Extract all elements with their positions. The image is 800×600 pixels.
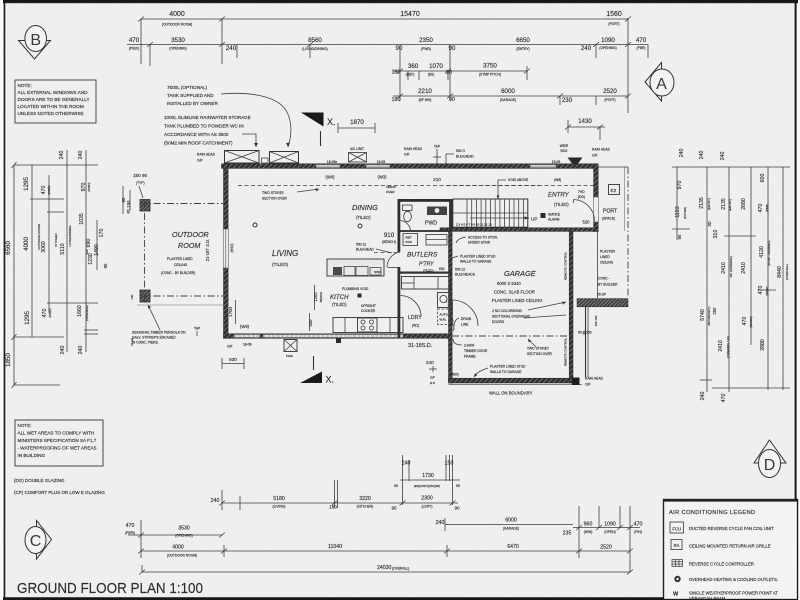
exterior wall top: [222, 164, 599, 169]
butlers bench: [402, 277, 451, 290]
smoke alarm: [541, 213, 546, 218]
butlers/ldry wall: [399, 272, 452, 274]
pergola note bottom left: [132, 305, 186, 345]
top dimension tier 1 line: [138, 11, 631, 113]
drain line dashes: [446, 300, 454, 334]
port bottom pier wall: [577, 299, 628, 307]
dining bulkhead dashes: [374, 252, 397, 254]
bottom dim overall rooms tier: [138, 544, 633, 558]
legend FCU symbol: [670, 522, 684, 533]
bottom dim garage tier: [436, 518, 573, 532]
void above dashed line: [447, 185, 595, 187]
section cut marker X top: [301, 113, 336, 147]
outdoor room boundary left: [144, 200, 146, 302]
top dimension tier 4 line: [392, 45, 631, 106]
port top edge: [598, 166, 628, 168]
ref/bs boxes below pwd: [403, 234, 447, 246]
floor waste crossed box: [284, 340, 297, 359]
right dim column line 4: [741, 167, 753, 345]
dim 930: [222, 357, 244, 369]
stacker door glazing bottom: [263, 335, 403, 338]
door gap butlers left: [397, 252, 400, 267]
left dim column line 970/1035/690/1230/1660: [68, 150, 98, 354]
garage bottom wall: [449, 378, 578, 383]
outdoor room boundary top: [140, 203, 223, 205]
power point kitchen: [358, 294, 362, 298]
two storey dashed line top: [238, 185, 540, 187]
wall pwd-stair: [450, 199, 453, 231]
entry door opening right wall: [593, 197, 598, 222]
entry door arc: [574, 200, 595, 222]
window W3 gap: [366, 165, 390, 168]
border frame bottom bar: [3, 597, 798, 600]
pwd top wall: [398, 199, 453, 202]
butlers door arc: [387, 252, 400, 267]
pwd room: [399, 201, 450, 232]
bottom dim window tier right: [563, 506, 643, 558]
garage right wall: [569, 231, 573, 383]
section cut marker X bottom: [300, 356, 334, 385]
bottom dim 24030 overall: [139, 558, 633, 575]
corner block garage SE: [572, 378, 580, 386]
outdoor room post bottom: [140, 290, 150, 302]
left dim column small cluster: [94, 186, 134, 346]
garage labels: [492, 269, 566, 324]
sliding door opening left wall: [223, 229, 228, 268]
kitchen rear bench: [333, 318, 403, 333]
legend RA symbol: [671, 540, 682, 550]
outdoor room post top: [140, 200, 150, 212]
right dim column line 2: [699, 151, 719, 401]
top dimension tier 2 line: [127, 37, 648, 66]
outdoor room boundary bottom: [140, 295, 223, 297]
border frame right line: [795, 0, 797, 600]
air conditioning legend box: [664, 500, 798, 600]
window W4 gap: [316, 165, 340, 168]
downlight dining: [358, 224, 362, 228]
ldry door arc: [401, 296, 422, 317]
ldry trough: [438, 293, 451, 308]
right dim column line 1: [672, 149, 790, 240]
port boundary dashed: [627, 167, 629, 298]
section marker C: [25, 521, 52, 560]
garage door leaf bottom left: [453, 300, 479, 326]
section marker B: [19, 26, 51, 60]
bottom mini dim cluster 240/1730/150: [394, 455, 460, 505]
a/c unit: [349, 147, 367, 162]
left dim column line 470/3060/470: [37, 175, 98, 318]
section marker D: [754, 440, 786, 478]
left dim column line 1295/4000/1295: [14, 165, 64, 337]
wall below stairs/entry: [440, 228, 598, 232]
garage left wall: [449, 231, 453, 383]
left dim column line 240/5110/1660/240: [54, 150, 67, 354]
outdoor room eave line: [137, 304, 225, 306]
exterior wall left of living: [224, 164, 229, 338]
rainwater tank 1: [225, 151, 260, 164]
stairs: [453, 199, 538, 227]
washing machine: [438, 309, 451, 325]
pwd door arc: [400, 220, 411, 231]
pwd/butlers/ldry left wall: [398, 199, 401, 338]
E2 box port: [609, 185, 620, 195]
exterior wall bottom living/kitchen: [224, 334, 453, 339]
legend heating outlet symbol: [674, 576, 680, 582]
section marker A: [645, 63, 674, 102]
garage two storey dashed: [452, 335, 569, 337]
right dim column line 5: [758, 167, 776, 390]
kitchen island bench: [327, 259, 384, 276]
hot water unit bottom wall: [336, 338, 341, 343]
note box 1: external windows note: [15, 80, 96, 123]
bottom dim tier living/kitchen/ldry: [211, 480, 460, 511]
leader note 7500L tank: [167, 85, 291, 147]
window gap entry top: [530, 165, 556, 168]
exterior wall right of entry: [594, 164, 599, 232]
left dim column line 6560/1850: [5, 162, 98, 388]
right dim column line 6 overall: [777, 167, 789, 390]
legend controller symbol: [672, 560, 683, 567]
dimension 1870: [338, 119, 375, 133]
bottom dim pier/opening left: [125, 520, 225, 558]
leader note 1000L slimline tank: [164, 115, 258, 147]
border frame left line: [4, 0, 6, 600]
right dim column line 3: [712, 152, 790, 403]
note box 2: wet areas note: [15, 420, 103, 466]
border frame top bar: [3, 0, 798, 3]
downlight living: [253, 223, 257, 227]
dimension 1430: [565, 118, 605, 140]
top dimension tier 3 line: [392, 45, 530, 102]
window W9 glazing bottom: [234, 335, 260, 338]
two storey label top: [262, 188, 319, 200]
boundary wall right of garage: [585, 307, 587, 377]
cooker: [358, 318, 378, 332]
rainwater tank 2: [262, 152, 299, 164]
